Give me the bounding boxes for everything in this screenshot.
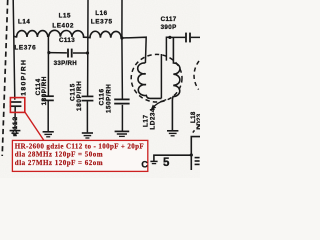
value 150P/RH for C116 (vertical) (106, 84, 113, 113)
shield can arc lower right (193, 125, 200, 132)
svg-text:C117: C117 (161, 16, 177, 23)
ground under C115 (82, 133, 93, 138)
svg-text:L15: L15 (59, 13, 71, 20)
svg-text:HR-2600 gdzie C112 to - 100pF: HR-2600 gdzie C112 to - 100pF + 20pF (15, 142, 144, 150)
capacitor C115 (82, 96, 94, 100)
svg-text:5: 5 (163, 157, 170, 169)
svg-text:LE402: LE402 (52, 22, 74, 29)
label 5 bottom-right (163, 157, 170, 169)
junction node C dot (120, 36, 123, 39)
inductor L14 (14, 31, 48, 37)
shield can L18 (dashed arc) (194, 61, 199, 90)
wire top corner into can (166, 37, 170, 60)
label L16 (95, 10, 107, 17)
svg-text:L14: L14 (18, 19, 30, 26)
svg-text:LE376: LE376 (14, 45, 36, 52)
inductor L16 (88, 31, 122, 38)
label L18 (vertical) (190, 111, 197, 123)
wire node A drop to C114 (47, 35, 49, 132)
svg-text:dla 27MHz 120pF = 62om: dla 27MHz 120pF = 62om (15, 159, 103, 167)
label L14 (18, 19, 30, 26)
wire input vertical with C112 branch (13, 0, 15, 131)
junction node E dot (190, 153, 193, 156)
label C114 (vertical) (35, 78, 42, 95)
ground under C114 (43, 132, 54, 137)
capacitor C117 (186, 33, 190, 43)
value 180P/RH for C115 (vertical) (76, 81, 83, 111)
label LE376 (14, 45, 36, 52)
capacitor C114 (42, 96, 54, 100)
svg-text:C: C (141, 159, 148, 169)
svg-text:180P/RH: 180P/RH (76, 81, 83, 111)
shield can L17 (dashed circle) (131, 54, 182, 102)
red highlight rectangle on C112 (10, 98, 24, 113)
svg-text:180P/RH: 180P/RH (41, 76, 48, 105)
dashed module boundary line (2, 0, 8, 156)
red leader line (25, 112, 44, 141)
svg-text:390P: 390P (161, 24, 177, 31)
label L15 (59, 13, 71, 20)
junction node B dot (86, 51, 89, 54)
label LD234 (vertical) (149, 108, 156, 129)
inductor L15 (49, 30, 88, 37)
value 390P (161, 24, 177, 31)
label LE402 (52, 22, 74, 29)
annotation text line 1 (15, 142, 144, 150)
svg-text:33P/RH: 33P/RH (54, 60, 78, 67)
red annotation box (12, 140, 147, 171)
svg-text:LD234: LD234 (149, 108, 156, 129)
annotation arrow to L17 (150, 100, 166, 111)
ground under C112 (10, 131, 21, 136)
wire vertical node B with C115 (86, 0, 89, 132)
junction node A dot (47, 51, 50, 54)
capacitor C113 branch wire (49, 52, 88, 54)
label C113 (59, 37, 75, 44)
svg-text:dla 28MHz 120pF = 50om: dla 28MHz 120pF = 50om (15, 151, 103, 159)
wire vertical node C with C116 (121, 0, 124, 131)
label C115 (vertical) (70, 83, 77, 101)
inductor L17 right winding (172, 37, 180, 130)
label C117 (161, 16, 177, 23)
capacitor C113 plates (68, 49, 72, 58)
svg-text:C112: C112 (12, 116, 19, 135)
wire L17 tap vertical (160, 54, 162, 98)
label C112 (vertical) (12, 116, 19, 135)
capacitor C112 (10, 102, 22, 106)
svg-text:C113: C113 (59, 37, 75, 44)
label C partial over box (141, 159, 148, 169)
label C116 (vertical) (99, 88, 106, 105)
svg-text:180P/RH: 180P/RH (21, 59, 28, 96)
wire bottom-right net (154, 137, 200, 170)
label LD2 partial (vertical) (196, 113, 203, 129)
ground under L17 (167, 131, 178, 136)
label LE375 (91, 18, 113, 25)
value 180P/RH for C114 (vertical) (41, 76, 48, 105)
value 180P/RH for C112 (vertical) (21, 59, 28, 96)
annotation text line 2 (15, 151, 103, 159)
svg-text:LE375: LE375 (91, 18, 113, 25)
label L17 (vertical) (142, 114, 149, 127)
capacitor C116 (114, 99, 129, 103)
svg-text:C116: C116 (99, 88, 106, 105)
inductor L17 left winding (138, 63, 162, 98)
ground small bottom-right (150, 161, 157, 163)
svg-text:150P/RH: 150P/RH (106, 84, 113, 113)
svg-text:L16: L16 (95, 10, 107, 17)
wire to C117 (170, 36, 200, 38)
ground under C116 (115, 131, 130, 136)
component marks right edge (195, 158, 200, 165)
value 33P/RH (54, 60, 78, 67)
junction node D dot (168, 36, 171, 39)
annotation text line 3 (15, 159, 103, 167)
wire rail to L17 can (122, 37, 146, 63)
svg-text:L17: L17 (142, 114, 149, 127)
